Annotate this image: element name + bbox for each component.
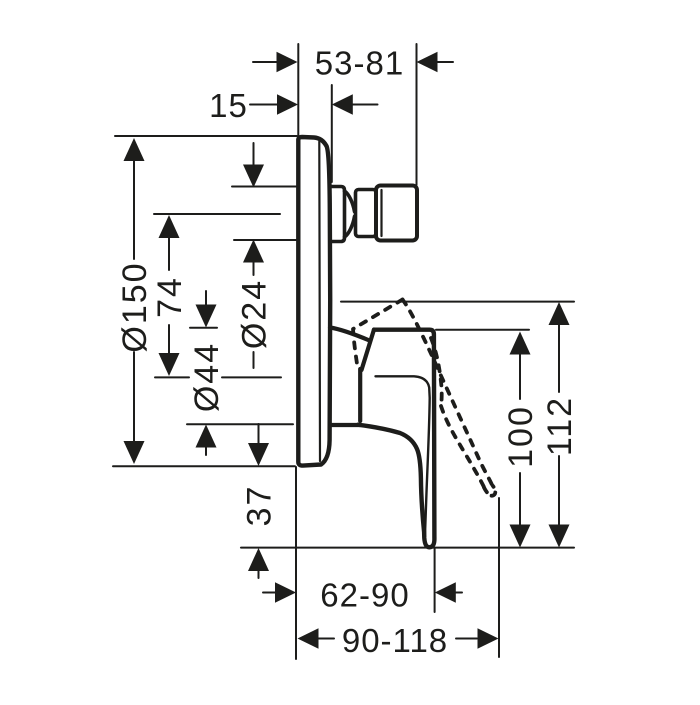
dimension line 90-118 (y=638.5) [317, 638, 477, 640]
diverter knob cone lower edge [345, 217, 355, 238]
label 90-118 [342, 622, 448, 659]
diverter knob cone upper edge [345, 191, 355, 212]
dimension line D150 (x=134) [133, 160, 135, 441]
lever handle inner contour line [376, 376, 430, 537]
diverter knob end cap inner edge line [380, 190, 382, 236]
dashed lever (open position) top edge to plate [353, 300, 403, 368]
label 53-81 [315, 45, 404, 82]
extension line knob axis (y=214) [154, 213, 280, 215]
label 15 [209, 87, 248, 124]
dashed lever (open position) lower edge [441, 406, 485, 489]
extension line plate bottom (y=466.3) [113, 465, 295, 467]
label 74 (rotated) [151, 276, 189, 318]
dashed lever rounded tip [484, 486, 495, 496]
arrowheads dimension 53-81 [277, 52, 438, 72]
dimension line D24 (x=253.5) [253, 143, 255, 368]
label D24 (rotated) [236, 279, 274, 349]
dimension line D44 (x=206) [205, 291, 207, 455]
extension line plate front face (x=331.8) [331, 85, 333, 182]
extension line wall plane (top, x=298) [297, 44, 299, 135]
extension line dashed lever tip (x=499) [498, 498, 500, 657]
svg-text:112: 112 [541, 396, 579, 456]
extension line cartridge axis (y=377.4) [155, 376, 281, 378]
cartridge cap front edge [358, 369, 362, 421]
extension line dashed lever top (y=301.6) [341, 301, 574, 303]
extension line knob end face (x=416.5) [416, 44, 418, 185]
svg-text:Ø44: Ø44 [188, 342, 226, 412]
label 112 (rotated) [541, 396, 579, 456]
arrowheads dimension 112 [549, 302, 570, 548]
diverter knob end cap [376, 186, 417, 241]
arrowheads dimension 37 [248, 443, 269, 571]
arrowheads dimension 90-118 [298, 628, 499, 648]
svg-text:62-90: 62-90 [320, 577, 409, 614]
arrowheads dimension 62-90 [275, 582, 456, 602]
arrowheads dimension D24 [243, 165, 264, 263]
extension line cap bottom (y=424.3) [187, 423, 293, 425]
dimension line 112 (x=559) [558, 325, 560, 525]
svg-text:37: 37 [241, 485, 279, 527]
dimension 62-90 leader lines [263, 592, 462, 594]
svg-text:90-118: 90-118 [342, 622, 448, 659]
label 100 (rotated) [502, 405, 540, 468]
cartridge cap top arc [330, 328, 370, 341]
dimension line 100 (x=520) [519, 354, 521, 525]
svg-text:53-81: 53-81 [315, 45, 404, 82]
dimension line 37 (x=258.5) [258, 424, 260, 578]
dashed lever (open position) upper edge [403, 300, 494, 488]
extension line lever top (y=329.7) [436, 329, 529, 331]
label 37 (rotated) [241, 485, 279, 527]
dimension 53-81 leader lines [253, 61, 453, 63]
svg-text:Ø24: Ø24 [236, 279, 274, 349]
label 62-90 [320, 577, 409, 614]
wall / finished floor line (y=547.6) [241, 547, 574, 549]
extension line lever tip (x=434.6) [434, 548, 436, 612]
arrowheads dimension 100 [510, 332, 531, 548]
label D44 (rotated) [188, 342, 226, 412]
extension line plate top (y=136) [115, 135, 297, 137]
dimension line 74 (x=169) [168, 238, 170, 354]
escutcheon plate front-face edge line [318, 142, 321, 462]
arrowheads dimension D44 [196, 305, 217, 448]
diverter knob sleeve at plate [330, 187, 345, 242]
lever handle outline (rest position) [358, 330, 434, 548]
extension line knob bottom (y=240) [234, 239, 296, 241]
arrowheads dimension 15 [277, 94, 353, 114]
dimension 15 leader lines [250, 104, 378, 106]
dashed lever hub edge [431, 338, 442, 406]
label D150 (rotated) [116, 261, 154, 352]
extension line cap top (y=327.8) [190, 327, 217, 329]
extension line wall plane bottom (x=296) [295, 467, 297, 659]
svg-text:15: 15 [209, 87, 248, 124]
svg-text:Ø150: Ø150 [116, 261, 154, 352]
lever hub left slant edge [362, 330, 375, 371]
escutcheon plate outline (side view) [298, 137, 330, 466]
svg-text:100: 100 [502, 405, 540, 468]
arrowheads dimension D150 [124, 138, 145, 464]
diverter knob middle cylinder [356, 190, 377, 237]
arrowheads dimension 74 [159, 215, 180, 376]
svg-text:74: 74 [151, 276, 189, 318]
extension line knob top (y=186.5) [232, 186, 296, 188]
cartridge cap bottom edge [331, 423, 361, 427]
